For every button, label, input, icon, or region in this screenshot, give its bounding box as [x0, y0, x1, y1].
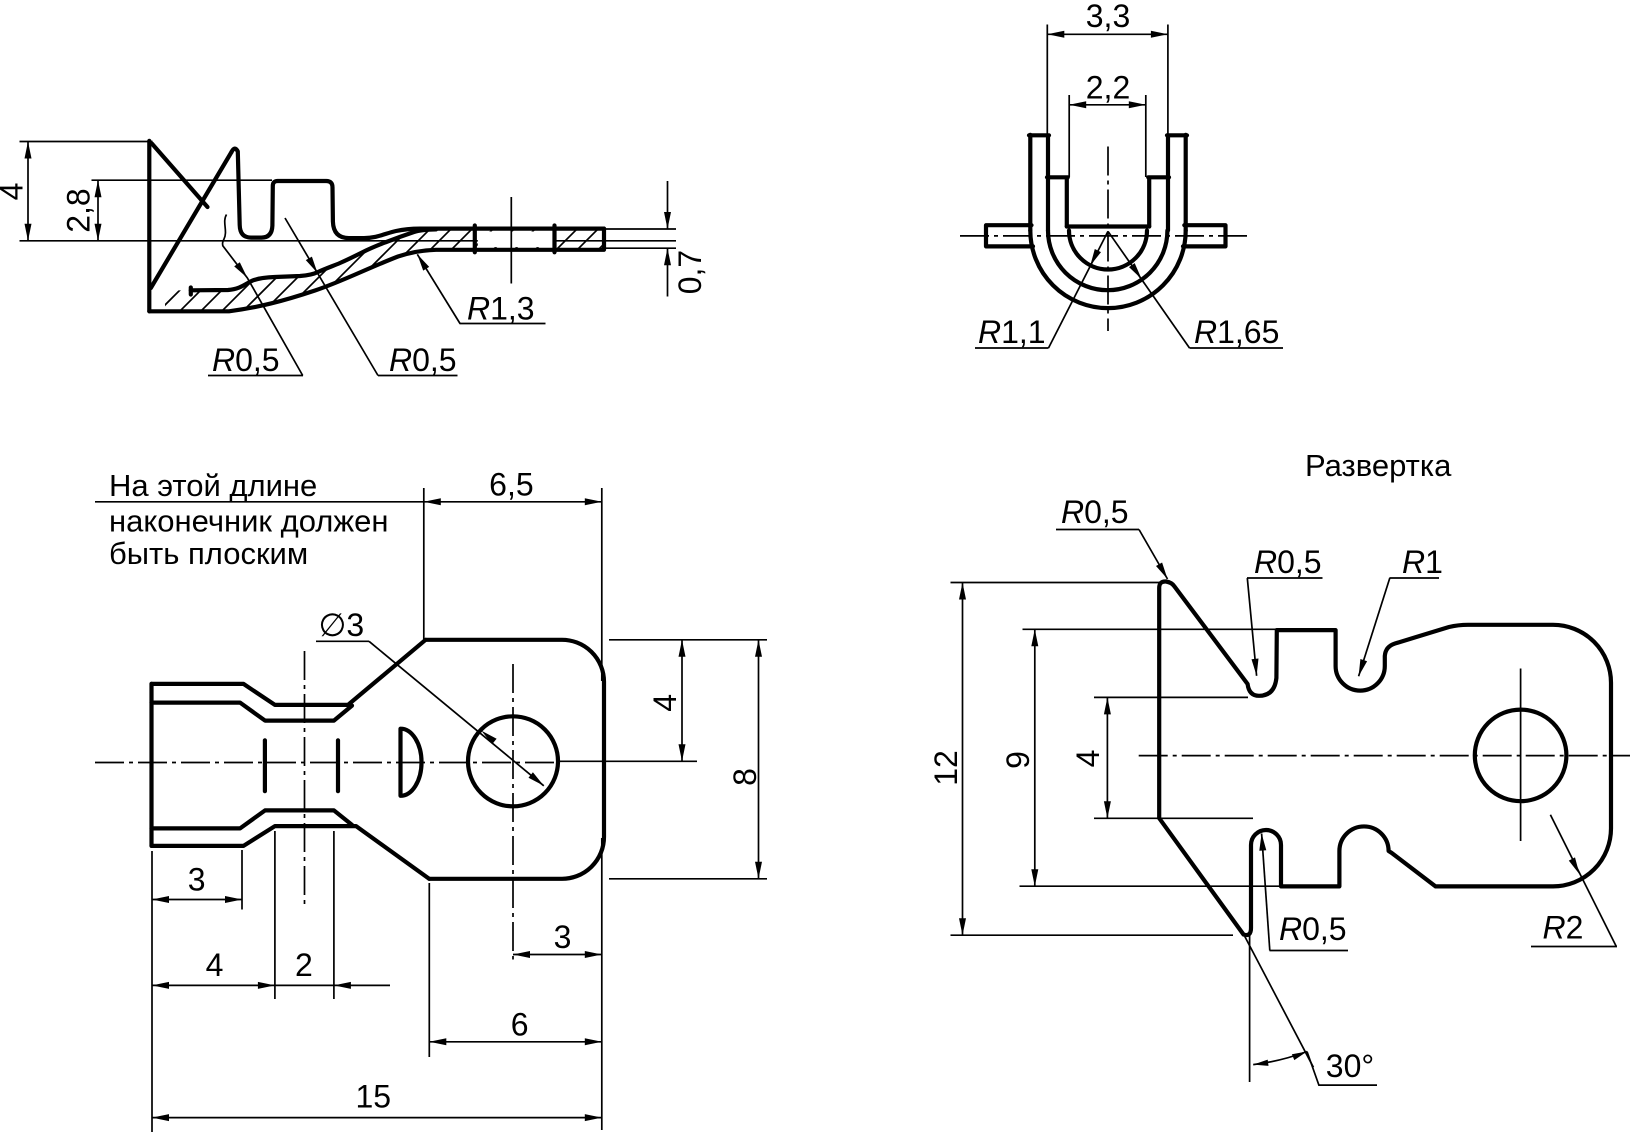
- hole: [1475, 710, 1567, 802]
- hole vertical axis: [1520, 669, 1522, 842]
- dimension 2,8: [92, 180, 273, 241]
- inner arc R1,1: [1069, 231, 1147, 270]
- bottom sheet outer surface: [149, 229, 604, 312]
- bend axis centerline: [304, 651, 306, 906]
- svg-text:R0,5: R0,5: [1279, 911, 1347, 947]
- dimension 4: [1094, 697, 1253, 818]
- dimension 4 (right, to hole axis): [557, 640, 767, 762]
- svg-text:R1,1: R1,1: [978, 314, 1046, 350]
- diagonal wing edge 1: [152, 144, 208, 208]
- svg-text:Развертка: Развертка: [1305, 448, 1452, 483]
- svg-text:15: 15: [356, 1079, 392, 1115]
- left inner fold cap: [1047, 175, 1068, 179]
- angle 30 dimension: [1245, 934, 1377, 1085]
- right flange: [1183, 225, 1226, 246]
- note leader to flat zone: [95, 501, 424, 503]
- svg-text:R0,5: R0,5: [1061, 494, 1129, 530]
- dimensions 4 and 2 (crimp zones): [152, 831, 390, 999]
- hole Ø3: [468, 716, 558, 806]
- peak, U-notch, contact bump, tail top surface: [232, 149, 605, 238]
- dimension 3 (left wing): [152, 850, 242, 910]
- right wall top cap: [1167, 133, 1187, 137]
- svg-text:R0,5: R0,5: [1254, 544, 1322, 580]
- svg-text:R0,5: R0,5: [212, 342, 280, 378]
- svg-text:наконечник должен: наконечник должен: [109, 504, 388, 539]
- channel floor: [1067, 224, 1149, 228]
- leader R0,5 (bump root radius): [285, 218, 458, 376]
- diagonal wing edge 2: [151, 152, 232, 288]
- section break vertical (thin): [510, 197, 512, 284]
- svg-text:9: 9: [1000, 751, 1036, 769]
- flat pattern outline: [1159, 581, 1611, 935]
- left wall middle line: [1046, 137, 1050, 231]
- leader R0,5 (crimp floor dent) with break squiggle: [208, 215, 303, 376]
- leader R0,5 (lower tab radius): [1262, 834, 1348, 951]
- svg-text:4: 4: [0, 183, 30, 201]
- dimension 6,5: [424, 488, 602, 1130]
- left wall inner line: [1065, 178, 1069, 227]
- dimension 8: [609, 640, 767, 879]
- svg-text:R1,3: R1,3: [467, 291, 535, 327]
- svg-text:На этой длине: На этой длине: [109, 468, 317, 503]
- dimension 15: [152, 851, 602, 1132]
- flat-zone boundary ticks: [473, 226, 477, 253]
- left wall top cap: [1029, 133, 1049, 137]
- part outline bottom half (outer): [152, 826, 430, 879]
- svg-text:3: 3: [554, 919, 572, 955]
- dimension 4 (height): [20, 142, 153, 241]
- leader R1,65: [1108, 231, 1283, 348]
- svg-text:6,5: 6,5: [489, 467, 533, 503]
- dimension 0,7 (sheet thickness): [604, 181, 676, 297]
- svg-text:2,2: 2,2: [1086, 70, 1130, 106]
- hole axis centerline: [512, 664, 514, 960]
- svg-text:30°: 30°: [1326, 1048, 1374, 1084]
- centerline horizontal: [1139, 755, 1630, 757]
- svg-text:0,7: 0,7: [672, 250, 708, 294]
- svg-text:4: 4: [1070, 750, 1106, 768]
- right wall middle line: [1166, 137, 1170, 231]
- leader R1,3 (transition radius): [417, 254, 545, 323]
- svg-text:8: 8: [727, 768, 763, 786]
- U walls and arcs: [986, 135, 1226, 308]
- right inner fold cap: [1148, 175, 1169, 179]
- centerline horizontal: [95, 762, 556, 764]
- dimension 9: [1020, 629, 1282, 886]
- dimension 6: [429, 883, 602, 1057]
- svg-text:12: 12: [928, 750, 964, 786]
- svg-text:3: 3: [188, 862, 206, 898]
- flat-zone gap (unhatched window): [478, 232, 553, 248]
- svg-text:R0,5: R0,5: [389, 342, 457, 378]
- right wall inner line: [1147, 178, 1151, 227]
- dimension 12: [951, 583, 1234, 936]
- dimension 2,2: [1069, 95, 1146, 177]
- centerline vertical: [1107, 147, 1109, 332]
- svg-text:4: 4: [206, 947, 224, 983]
- dimension 3 (hole to edge): [513, 954, 602, 956]
- svg-text:∅3: ∅3: [319, 607, 365, 643]
- baseline reference (thin): [20, 240, 677, 242]
- leader Ø3: [316, 641, 544, 786]
- part outline top half (outer): [152, 640, 605, 879]
- middle arc R1,65: [1048, 231, 1167, 291]
- fold edge bottom (inner): [152, 810, 353, 828]
- svg-text:R1,65: R1,65: [1194, 314, 1279, 350]
- svg-text:быть плоским: быть плоским: [109, 536, 308, 571]
- svg-text:4: 4: [647, 694, 683, 712]
- contact bump (lanced D mark): [401, 729, 422, 796]
- inner sheet surface (crimp floor): [191, 229, 436, 290]
- sheet end cap: [189, 288, 193, 295]
- leader R2 (plate corner): [1531, 815, 1617, 947]
- ring plate: [426, 640, 604, 879]
- centerline horizontal: [960, 235, 1252, 237]
- left flange: [986, 225, 1033, 246]
- left wall outer line: [1028, 135, 1032, 231]
- svg-text:2: 2: [295, 947, 313, 983]
- svg-text:2,8: 2,8: [61, 188, 97, 232]
- leader R1 (notch radius): [1359, 578, 1439, 676]
- leader R0,5 (tip radius): [1056, 530, 1168, 580]
- leader R0,5 (notch fillet): [1247, 578, 1323, 676]
- crimp zone ticks: [263, 740, 267, 791]
- svg-text:R1: R1: [1402, 544, 1443, 580]
- outer arc: [1030, 231, 1185, 309]
- dimension 3,3: [1047, 25, 1168, 137]
- svg-text:6: 6: [511, 1007, 529, 1043]
- right wall outer line: [1184, 135, 1188, 231]
- fold edge top (inner): [152, 703, 353, 721]
- svg-text:R2: R2: [1543, 910, 1584, 946]
- leader R1,1: [975, 231, 1108, 348]
- part outline: crimp body left wall: [149, 141, 604, 311]
- svg-text:3,3: 3,3: [1086, 0, 1130, 34]
